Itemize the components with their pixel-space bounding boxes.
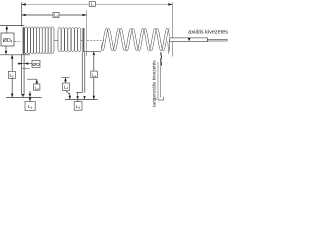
coil B windings	[58, 28, 81, 52]
label box Od	[32, 60, 40, 67]
lead A wire	[22, 54, 25, 95]
L3 up arrow	[36, 79, 39, 83]
helical coil left tail	[101, 40, 103, 47]
svg-text:L5: L5	[28, 104, 33, 110]
svg-text:L: L	[91, 2, 94, 7]
L2 right down arrow	[93, 96, 96, 100]
helix end strokes below lead	[168, 42, 170, 54]
tangential lead bend	[160, 52, 163, 65]
wire dia dimension line	[18, 63, 33, 65]
lead B end arrow	[83, 96, 85, 99]
wire dia left-pointing arrow	[25, 62, 29, 64]
ODk leader line upper	[6, 29, 8, 33]
svg-text:L2: L2	[9, 73, 14, 79]
L5 right stem	[77, 92, 79, 101]
svg-text:L2: L2	[92, 72, 97, 78]
extension line left (x=21.7)	[21, 2, 23, 26]
coil B lead edge bar	[83, 28, 85, 52]
dim line x=12.5 (L2 left)	[11, 55, 13, 98]
L4 down arrow	[69, 96, 72, 100]
label box L1	[53, 12, 59, 17]
ODk top reference line	[0, 25, 24, 27]
dimension L1 line	[22, 14, 87, 16]
L5 right down arrow	[76, 96, 78, 99]
L2 left up arrow	[11, 55, 14, 59]
lead A end arrow	[22, 94, 24, 97]
dimension L1 left arrow	[22, 14, 26, 17]
label box L5 left	[25, 102, 35, 111]
L4 up arrow	[64, 77, 67, 81]
axial lead body	[170, 38, 208, 42]
L5 left stem	[29, 97, 31, 101]
L3 reference tick	[27, 78, 38, 80]
dimension L line	[22, 3, 173, 5]
ODk leader line lower	[5, 46, 7, 51]
dimension L left arrow	[22, 3, 26, 6]
ODk bottom reference line	[0, 54, 30, 56]
coil A windings	[25, 27, 54, 54]
L3 below-line arrow	[29, 98, 32, 102]
dimension L1 right arrow	[83, 14, 87, 17]
ODk up arrow	[6, 26, 9, 30]
ODk down arrow	[5, 51, 8, 55]
label box L2 left	[8, 71, 15, 78]
L4 stem	[66, 81, 70, 96]
helical coil (axial lead style)	[101, 28, 170, 51]
svg-text:L4: L4	[64, 85, 69, 91]
L3 stem	[30, 81, 37, 94]
L4 reference tick	[62, 76, 70, 78]
axial lead wire	[207, 39, 227, 41]
svg-text:ØDk: ØDk	[3, 38, 13, 44]
svg-text:L1: L1	[54, 13, 59, 19]
L2 right dim line	[93, 56, 95, 100]
svg-text:L5: L5	[76, 104, 81, 110]
tangential lead tip hook	[158, 97, 164, 101]
lead A tick	[22, 67, 30, 69]
connector wire between coils	[54, 40, 58, 42]
label box L5 right	[74, 102, 82, 111]
extension line right (x=172.4)	[171, 2, 173, 56]
wire dia right-pointing arrow	[19, 62, 23, 64]
L3 down arrow	[29, 94, 32, 98]
axial lead marker arrow	[188, 38, 191, 41]
label box L	[89, 2, 95, 7]
lead B wire	[76, 52, 85, 92]
extension line middle (x=86.5)	[86, 11, 88, 57]
L2 left down arrow	[11, 94, 14, 98]
L2 right up arrow	[93, 51, 96, 55]
centerline dashes left	[15, 41, 22, 43]
svg-text:ØD: ØD	[32, 62, 40, 68]
svg-text:tangenciális kivezetés: tangenciális kivezetés	[151, 60, 157, 107]
coil B to lead wire	[81, 40, 83, 42]
L2 right tick	[85, 50, 101, 52]
label box L3	[34, 84, 40, 90]
label box L2 right	[91, 71, 98, 78]
label box ODk	[1, 33, 14, 46]
tangential lead wire	[158, 58, 160, 100]
label box L4	[63, 83, 70, 91]
dimension L right arrow	[168, 3, 172, 6]
left bottom dimension line	[6, 96, 42, 98]
helical coil back strand	[102, 28, 170, 51]
right bottom dimension line	[65, 99, 98, 101]
svg-text:axiális kivezetés: axiális kivezetés	[188, 30, 228, 36]
coil A lead edge bar	[23, 27, 25, 54]
svg-text:L3: L3	[34, 85, 39, 91]
centerline dashes middle	[87, 40, 103, 42]
